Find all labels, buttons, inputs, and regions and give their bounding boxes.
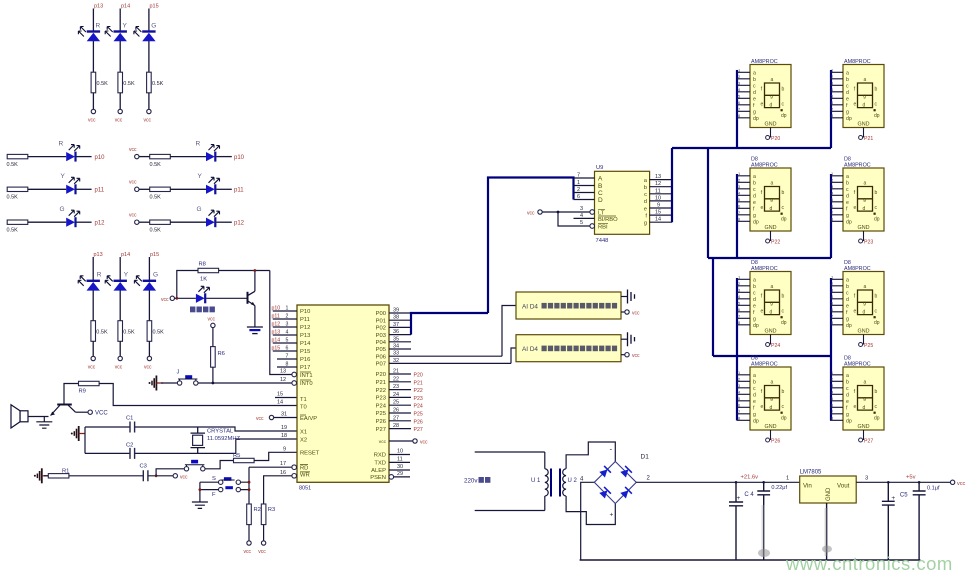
wire LED to net row2 [77, 188, 92, 190]
svg-text:27: 27 [393, 415, 399, 421]
P2 pin numbers [393, 369, 399, 430]
svg-text:g: g [644, 221, 647, 227]
wire LED2 column mid [119, 257, 121, 280]
svg-text:P25: P25 [414, 412, 423, 418]
wire resistor to LED row3 [28, 221, 66, 223]
svg-text:24: 24 [393, 392, 399, 398]
svg-text:vcc: vcc [144, 118, 152, 124]
svg-text:3: 3 [580, 206, 583, 212]
wire P06 to sensor 1 [502, 306, 516, 357]
bridge diode top-right [620, 466, 632, 478]
svg-text:R6: R6 [218, 351, 225, 357]
svg-text:INT0: INT0 [300, 381, 313, 387]
svg-text:32: 32 [393, 358, 399, 364]
AC source label 220v交流 [464, 477, 490, 485]
wire resistor to vcc [148, 93, 150, 110]
vcc terminal mid2 [118, 356, 122, 360]
wire R9 to T0 line [99, 384, 297, 406]
wire P07 to sensor 2 [511, 348, 516, 363]
svg-text:11.0592MHZ: 11.0592MHZ [207, 436, 241, 442]
LED red mid group [78, 276, 100, 291]
bus display R4 [830, 356, 832, 421]
svg-text:D8: D8 [844, 356, 851, 362]
svg-text:C1: C1 [126, 416, 133, 422]
display DS2 row1 right [830, 59, 884, 140]
svg-text:3: 3 [865, 476, 868, 482]
LED R row1 right [206, 145, 220, 162]
svg-text:R: R [59, 141, 64, 148]
LED green mid group [134, 276, 156, 291]
transistor Q1 [248, 291, 255, 305]
ground J dark red [149, 376, 164, 391]
vcc terminal sensor 2 [625, 353, 629, 357]
svg-text:13: 13 [280, 369, 286, 375]
svg-text:vcc: vcc [632, 311, 640, 317]
svg-text:12: 12 [280, 377, 286, 383]
svg-text:X1: X1 [300, 429, 307, 435]
svg-text:C5: C5 [900, 493, 908, 499]
svg-text:RXD: RXD [374, 453, 386, 459]
LED G row3 right [206, 210, 220, 227]
wire R8 left to vcc node [177, 271, 198, 299]
junction 0.22uf rail [762, 481, 765, 484]
7448 input stubs [574, 178, 595, 200]
svg-text:AI D4: AI D4 [522, 304, 538, 311]
svg-text:P25: P25 [376, 411, 386, 417]
bus display R1 [830, 70, 832, 148]
vcc terminal speaker [88, 410, 92, 414]
svg-text:P01: P01 [376, 318, 386, 324]
vcc terminal power out [950, 480, 954, 484]
svg-text:G: G [197, 206, 202, 213]
svg-text:R5: R5 [233, 453, 240, 459]
wire S right to RD [241, 467, 292, 504]
vcc terminal mid3 [147, 356, 151, 360]
bridge rectifier D1 diamond [594, 462, 636, 504]
resistor R1 [48, 474, 69, 478]
7448 body [595, 171, 650, 234]
svg-text:7448: 7448 [596, 238, 609, 244]
svg-text:B: B [598, 183, 602, 190]
junction S RD [248, 481, 251, 484]
wire LED1 column mid [92, 257, 94, 280]
svg-text:INT1: INT1 [300, 373, 313, 379]
wire vcc to photo LED [175, 297, 196, 299]
svg-text:p14: p14 [121, 252, 130, 258]
svg-text:G: G [151, 23, 156, 30]
svg-text:X2: X2 [300, 437, 307, 443]
svg-text:P25: P25 [864, 343, 873, 349]
svg-text:16: 16 [280, 470, 286, 476]
resistor R8 [198, 268, 219, 272]
svg-text:P27: P27 [376, 427, 386, 433]
input pin numbers 7 1 2 6 [577, 173, 580, 201]
svg-text:AI D4: AI D4 [522, 346, 538, 353]
resistor 0.5K mid2 [118, 321, 123, 342]
bridge diode bottom-right [620, 487, 632, 499]
svg-text:10: 10 [655, 195, 661, 201]
svg-text:D8: D8 [751, 157, 758, 163]
8051 serial stubs [389, 455, 410, 477]
svg-text:P23: P23 [864, 240, 873, 246]
svg-text:D: D [598, 197, 603, 204]
LED red top group [78, 27, 100, 42]
resistor R9 [79, 381, 100, 385]
vcc terminal photo [170, 296, 174, 300]
svg-text:D8: D8 [751, 356, 758, 362]
svg-text:4: 4 [580, 213, 583, 219]
svg-text:C 4: C 4 [744, 492, 754, 498]
svg-text:21: 21 [393, 369, 399, 375]
LED Y row2 right [206, 177, 220, 194]
vcc terminal LED3 [147, 109, 151, 113]
wire LED1 to resistor mid [92, 290, 94, 320]
LED green top group [134, 27, 156, 42]
bus rail row34 [713, 355, 831, 357]
LM7805 GND pin wire [826, 503, 828, 560]
vcc terminal mid1 [91, 356, 95, 360]
svg-text:6: 6 [577, 194, 580, 200]
sensor box 2 [516, 335, 621, 362]
svg-text:Y: Y [61, 173, 66, 180]
wire LED1 to resistor [92, 41, 94, 72]
svg-text:0.5K: 0.5K [96, 330, 108, 336]
wire photo out to INT1 [270, 271, 292, 375]
vcc terminal row3 [135, 220, 139, 224]
wire resistor to LED row2 right [170, 188, 206, 190]
svg-text:vcc: vcc [129, 147, 137, 153]
svg-text:P02: P02 [376, 326, 386, 332]
capacitor 0.1uf [913, 482, 926, 560]
resistor 0.5K LED3 [147, 72, 152, 93]
8051 right pin names [370, 311, 387, 481]
vcc terminal LED2 [118, 109, 122, 113]
resistor 0.5K row3 right [150, 220, 171, 224]
svg-text:U 1: U 1 [531, 478, 541, 484]
EA vcc terminal [269, 415, 273, 419]
wire branch up to reset button [156, 469, 184, 476]
svg-text:P22: P22 [414, 388, 423, 394]
wire LED2 column [119, 9, 121, 32]
svg-text:R2: R2 [254, 507, 261, 513]
svg-text:VCC: VCC [95, 411, 108, 417]
svg-text:vcc: vcc [244, 549, 252, 555]
photo LED [196, 286, 210, 303]
svg-text:P24: P24 [414, 404, 423, 410]
wire S left to ground [200, 482, 219, 502]
svg-text:vcc: vcc [258, 549, 266, 555]
svg-text:Y: Y [198, 173, 203, 180]
wire photo LED to transistor base [206, 297, 247, 299]
svg-text:R9: R9 [79, 389, 86, 395]
ground transistor emitter [247, 327, 263, 334]
8051 vcc pin wire [389, 440, 413, 442]
svg-text:14: 14 [277, 400, 283, 406]
svg-text:P24: P24 [771, 343, 780, 349]
bridge diode top-left [599, 466, 611, 478]
svg-text:vcc: vcc [379, 440, 387, 445]
svg-text:0.5K: 0.5K [7, 228, 19, 234]
svg-text:vcc: vcc [88, 365, 96, 371]
bridge diode bottom-left [599, 487, 611, 499]
svg-text:R: R [97, 272, 102, 279]
T1 stub [275, 397, 297, 399]
svg-text:vcc: vcc [420, 440, 428, 446]
svg-text:P07: P07 [376, 362, 386, 368]
svg-text:0.5K: 0.5K [153, 330, 165, 336]
svg-text:26: 26 [393, 408, 399, 414]
P0 pin numbers [393, 308, 399, 364]
wire LED2 to resistor mid [119, 290, 121, 320]
svg-text:P05: P05 [376, 347, 386, 353]
svg-text:D1: D1 [641, 454, 650, 461]
svg-text:RD: RD [300, 465, 308, 471]
8051 body [297, 305, 389, 482]
display DS3 row2 left [737, 163, 791, 244]
svg-text:p12: p12 [234, 221, 245, 227]
svg-text:Y: Y [124, 272, 129, 279]
svg-text:0.5K: 0.5K [150, 195, 162, 201]
transistor Q2 speaker [51, 405, 76, 416]
wire speaker to transistor [28, 416, 49, 418]
display DS6 row3 right [830, 266, 884, 347]
svg-text:5: 5 [286, 338, 289, 344]
P0 bus to 7448 [411, 178, 574, 335]
wire LED3 to resistor mid [148, 290, 150, 320]
ground R1 dark red [34, 468, 49, 483]
svg-text:U 2: U 2 [568, 478, 578, 484]
svg-text:7: 7 [286, 354, 289, 360]
wire J to INT0 [198, 382, 292, 384]
regulator LM7805 body [800, 476, 857, 503]
svg-text:R: R [196, 141, 201, 148]
svg-text:0.5K: 0.5K [123, 330, 135, 336]
svg-text:33: 33 [393, 351, 399, 357]
wire LED3 column [148, 9, 150, 32]
svg-text:12: 12 [655, 181, 661, 187]
bus 7448 out riser [671, 148, 673, 222]
svg-text:1: 1 [577, 180, 580, 186]
pin circle RBI [590, 224, 595, 229]
LED Y row2 [66, 177, 80, 194]
svg-text:R3: R3 [268, 507, 275, 513]
svg-text:BI/RBO: BI/RBO [598, 217, 618, 223]
svg-text:P03: P03 [376, 333, 386, 339]
control pin numbers 3 4 5 [580, 206, 583, 226]
svg-text:vcc: vcc [144, 365, 152, 371]
capacitor C1 [130, 422, 135, 433]
display DS4 row2 right [830, 163, 884, 244]
svg-text:15: 15 [277, 392, 283, 398]
wire LED to net row3 [77, 221, 92, 223]
svg-text:P14: P14 [300, 341, 311, 347]
resistor 0.5K row1 [7, 154, 28, 158]
7448 output names [644, 178, 648, 227]
bus rail row12 [672, 147, 831, 149]
svg-text:GND: GND [826, 487, 832, 501]
svg-text:0.5K: 0.5K [97, 81, 109, 87]
svg-text:P12: P12 [300, 325, 310, 331]
sensor box 1 text [522, 303, 617, 311]
capacitor C4 electrolytic [729, 482, 743, 560]
svg-text:0.5K: 0.5K [123, 81, 135, 87]
junction S R2 [248, 488, 251, 491]
ground return rail [580, 559, 921, 561]
resistor 0.5K mid3 [147, 321, 152, 342]
svg-text:c: c [644, 192, 647, 198]
wire resistor to vcc [119, 93, 121, 110]
net labels p10-p15 with pin numbers [272, 306, 289, 368]
svg-text:U9: U9 [596, 165, 603, 171]
output pin numbers [655, 174, 661, 223]
svg-text:1: 1 [786, 476, 789, 482]
svg-text:P21: P21 [414, 380, 423, 386]
svg-text:2: 2 [577, 187, 580, 193]
svg-text:0.5K: 0.5K [152, 81, 164, 87]
svg-text:p10: p10 [272, 306, 281, 312]
svg-text:b: b [644, 185, 647, 191]
svg-text:1K: 1K [200, 277, 207, 283]
capacitor C3 [143, 470, 148, 481]
wire speaker ground stem [43, 417, 45, 422]
svg-text:S: S [212, 476, 216, 482]
svg-text:RESET: RESET [300, 451, 320, 457]
svg-text:EA/VP: EA/VP [300, 416, 317, 422]
svg-text:7: 7 [577, 173, 580, 179]
svg-text:p13: p13 [94, 252, 103, 258]
svg-text:p10: p10 [234, 155, 245, 161]
svg-text:17: 17 [280, 461, 286, 467]
display DS5 row3 left [737, 266, 791, 347]
wire resistor to LED row3 right [170, 221, 206, 223]
svg-text:P27: P27 [414, 427, 423, 433]
sensor 2 ground wire [621, 338, 628, 340]
junction 0.1uf rail [918, 481, 921, 484]
svg-text:13: 13 [655, 174, 661, 180]
wire secondary top to bridge minus [566, 442, 615, 469]
svg-text:P00: P00 [376, 311, 386, 317]
svg-text:P20: P20 [771, 136, 780, 142]
svg-text:P23: P23 [414, 396, 423, 402]
svg-text:P22: P22 [771, 240, 780, 246]
wire R1 to C3 [69, 475, 143, 477]
svg-text:34: 34 [393, 344, 399, 350]
pin circle LT [590, 210, 595, 215]
svg-text:vcc: vcc [256, 416, 264, 422]
svg-text:G: G [153, 272, 158, 279]
svg-text:0.22μf: 0.22μf [771, 485, 787, 491]
svg-text:P13: P13 [300, 333, 310, 339]
svg-text:37: 37 [393, 322, 399, 328]
wire resistor to vcc [92, 93, 94, 110]
junction S ground [199, 488, 202, 491]
svg-text:TXD: TXD [374, 461, 386, 467]
svg-text:P15: P15 [300, 349, 310, 355]
bus display L4 [736, 356, 738, 421]
8051 right P0 stubs [389, 313, 511, 363]
svg-text:0.5K: 0.5K [7, 195, 19, 201]
resistor R2 [247, 504, 252, 525]
svg-text:11: 11 [397, 456, 403, 462]
svg-text:LT: LT [598, 210, 605, 216]
wire ground to R1 [44, 475, 48, 477]
svg-text:p12: p12 [272, 322, 281, 328]
svg-text:vcc: vcc [129, 180, 137, 186]
svg-text:D8: D8 [844, 260, 851, 266]
svg-text:vcc: vcc [632, 353, 640, 359]
sensor 2 vcc wire [621, 354, 625, 356]
ground crystal dark red [71, 426, 86, 441]
display DS7 row4 left [737, 362, 791, 443]
speaker SP [11, 405, 28, 428]
7448 output stubs [650, 180, 672, 223]
wire WR to R3 [264, 476, 292, 504]
svg-text:e: e [644, 206, 647, 212]
resistor 0.5K row3 [7, 220, 28, 224]
wire vcc to resistor row1 [139, 156, 150, 158]
svg-text:22: 22 [393, 376, 399, 382]
wire LED to net row1 [77, 156, 92, 158]
AC source 220v loop wire [475, 452, 545, 511]
svg-text:R: R [96, 23, 101, 30]
svg-text:0.1μf: 0.1μf [927, 486, 940, 492]
svg-text:28: 28 [393, 423, 399, 429]
svg-text:8051: 8051 [299, 486, 311, 492]
7448 control overlines [598, 209, 616, 223]
wire LED1 column [92, 9, 94, 32]
svg-text:0.5K: 0.5K [7, 162, 19, 168]
resistor 0.5K row2 [7, 187, 28, 191]
pin circle INT1 [292, 372, 297, 377]
wire +V rail from bridge to LM7805 [636, 481, 799, 483]
pin circle INT0 [292, 381, 297, 386]
LED yellow mid group [105, 276, 127, 291]
wire R6 to INT0 line [212, 367, 214, 383]
resistor 0.5K LED2 [118, 72, 123, 93]
wire LED to net row3 right [216, 221, 232, 223]
svg-text:3: 3 [286, 322, 289, 328]
svg-text:T1: T1 [300, 397, 307, 403]
svg-text:A: A [598, 176, 603, 183]
svg-text:30: 30 [397, 464, 403, 470]
LED yellow top group [105, 27, 127, 42]
svg-text:p15: p15 [150, 252, 159, 258]
svg-text:p14: p14 [121, 4, 130, 10]
wire resistor to LED row1 right [170, 156, 206, 158]
svg-text:P20: P20 [376, 372, 386, 378]
svg-text:J: J [177, 370, 180, 376]
8051 left pin name overlines [300, 372, 311, 472]
wire vcc to R6 [212, 328, 214, 347]
wire EA vcc [274, 417, 297, 419]
svg-text:23: 23 [393, 384, 399, 390]
svg-text:38: 38 [393, 315, 399, 321]
svg-text:4: 4 [286, 330, 289, 336]
svg-text:P04: P04 [376, 340, 387, 346]
resistor 0.5K row1 right [150, 154, 171, 158]
wire resistor to vcc mid2 [119, 341, 121, 356]
bus drop row2 [707, 148, 709, 258]
svg-text:+: + [610, 512, 614, 519]
wire LED3 to resistor [148, 41, 150, 72]
vcc terminal 8051 [413, 439, 417, 443]
svg-text:C3: C3 [140, 464, 147, 470]
svg-text:+21.6v: +21.6v [741, 475, 759, 481]
svg-text:29: 29 [397, 471, 403, 477]
resistor 0.5K mid1 [91, 321, 96, 342]
junction C4 rail [735, 481, 738, 484]
wire crystal left node [85, 427, 297, 453]
